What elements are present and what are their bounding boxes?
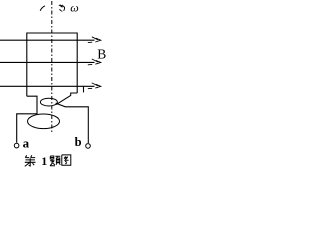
svg-text:ω: ω: [70, 1, 78, 15]
arrowhead 1: [92, 37, 98, 40]
svg-text:B: B: [97, 46, 106, 61]
brush a wire: [17, 114, 38, 143]
lower slip ring (large ellipse): [28, 114, 60, 129]
rotation axis (dash-dot vertical line): [51, 1, 53, 134]
rotation arrow with arrowhead: [63, 6, 65, 11]
arrowhead 2: [92, 59, 98, 62]
svg-text:a: a: [23, 136, 30, 151]
brush b wire: [56, 103, 89, 143]
caption: 题: [50, 156, 60, 166]
field line 3: [0, 85, 95, 87]
upper slip ring (small ellipse): [40, 98, 57, 106]
caption: 第: [25, 155, 36, 166]
left coil wire jog to lower ring: [27, 96, 37, 114]
svg-text:1: 1: [41, 154, 47, 168]
coil right side: [76, 33, 78, 94]
field line 2: [0, 61, 95, 63]
coil left side: [26, 33, 28, 97]
rotation arc left stroke: [40, 6, 45, 11]
short tick below field line 3: [83, 86, 85, 92]
terminal a circle: [14, 143, 19, 148]
arrowhead 3: [92, 83, 98, 86]
coil top edge: [27, 32, 77, 34]
field line 1: [0, 39, 95, 41]
caption: 图: [62, 155, 71, 165]
svg-text:b: b: [75, 135, 82, 149]
terminal b circle: [86, 144, 91, 149]
right coil wire jog to upper ring: [56, 93, 77, 105]
